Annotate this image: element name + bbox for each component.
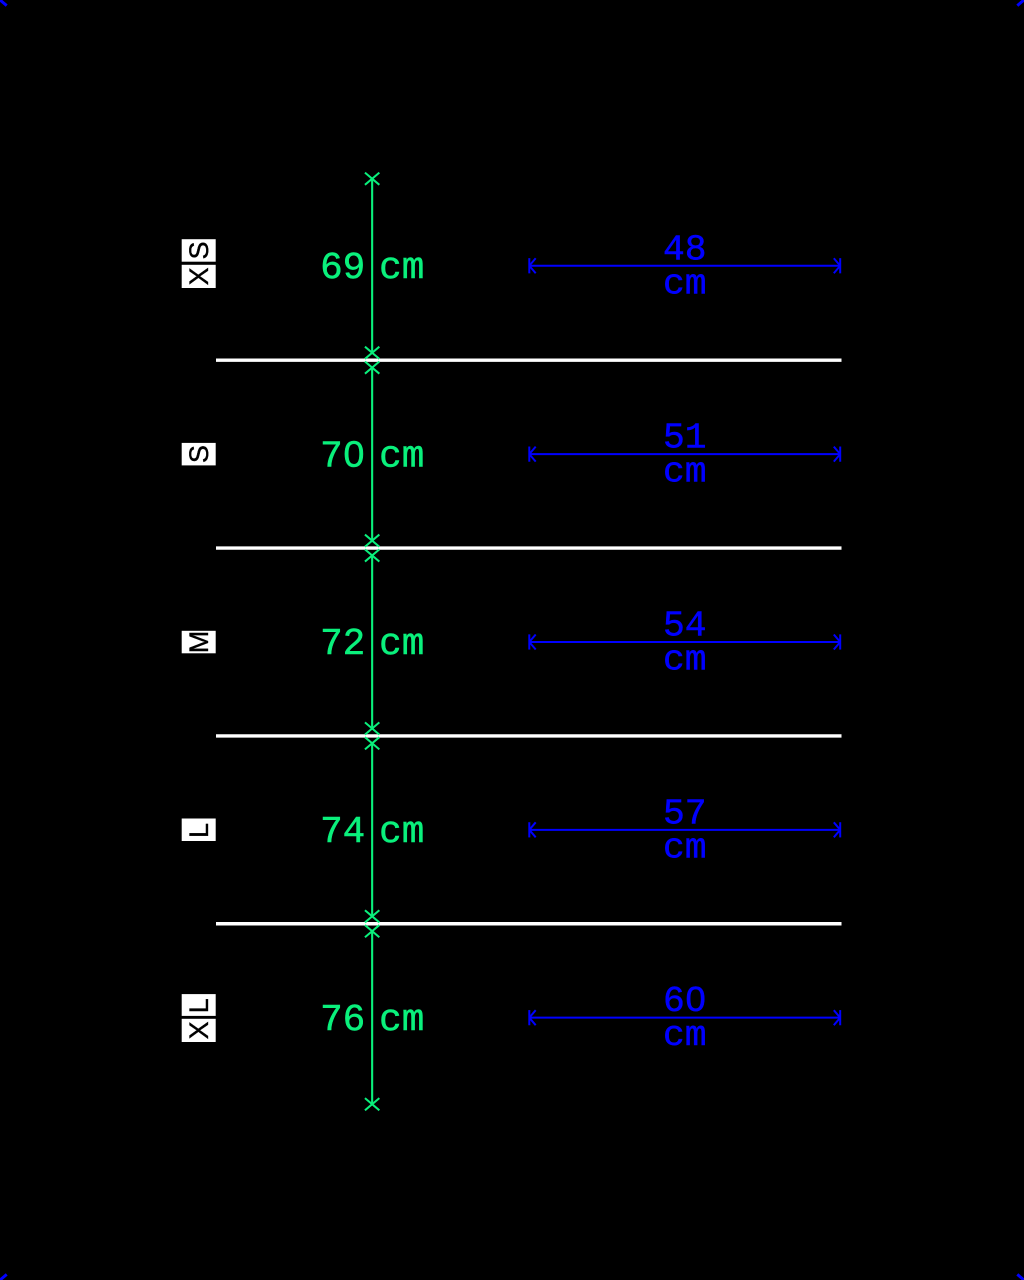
svg-text:70: 70 bbox=[320, 436, 365, 478]
svg-text:cm: cm bbox=[379, 812, 424, 854]
svg-text:X: X bbox=[184, 1021, 214, 1039]
svg-text:cm: cm bbox=[663, 1015, 707, 1056]
row L: blue right arrowhead bbox=[834, 822, 840, 837]
row M: blue value 54 cm bbox=[663, 606, 707, 681]
row L: blue left arrowhead bbox=[529, 822, 535, 837]
row L: green X tick bottom bbox=[365, 910, 379, 922]
row M: green X tick top bbox=[365, 549, 379, 561]
svg-text:cm: cm bbox=[379, 624, 424, 666]
svg-text:cm: cm bbox=[663, 640, 707, 681]
row S: green X tick bottom bbox=[365, 535, 379, 547]
row XS: green X tick bottom bbox=[365, 347, 379, 359]
corner mark bottom-right bbox=[1017, 1274, 1024, 1280]
row XL: green value 76 cm bbox=[320, 1000, 424, 1042]
row S: blue left arrowhead bbox=[529, 447, 535, 462]
corner mark top-left bbox=[0, 0, 7, 6]
row XL: blue left arrowhead bbox=[529, 1010, 535, 1025]
svg-text:S: S bbox=[184, 241, 214, 259]
svg-text:cm: cm bbox=[379, 436, 424, 478]
row XS: green length dimension line bbox=[371, 179, 373, 353]
corner mark top-right bbox=[1017, 0, 1024, 6]
row M: size label box M bbox=[182, 631, 216, 654]
row XL: blue width dimension line bbox=[529, 1017, 840, 1019]
row XS: size label box X bbox=[182, 265, 216, 288]
svg-text:cm: cm bbox=[663, 263, 707, 304]
row L: blue width dimension line bbox=[529, 829, 840, 831]
separator line 4 bbox=[216, 922, 842, 925]
row S: blue value 51 cm bbox=[663, 418, 707, 493]
row XL: size label box X bbox=[182, 1019, 216, 1042]
svg-text:cm: cm bbox=[379, 248, 424, 290]
svg-text:L: L bbox=[184, 998, 214, 1013]
row S: blue right arrowhead bbox=[834, 447, 840, 462]
row M: blue right arrowhead bbox=[834, 634, 840, 649]
row L: green X tick top bbox=[365, 737, 379, 749]
row M: green value 72 cm bbox=[320, 624, 424, 666]
row S: size label box S bbox=[182, 443, 216, 466]
row M: blue width dimension line bbox=[529, 641, 840, 643]
svg-text:M: M bbox=[184, 631, 214, 654]
row S: blue width dimension line bbox=[529, 453, 840, 455]
svg-text:S: S bbox=[184, 445, 214, 463]
row XS: blue right arrowhead bbox=[834, 258, 840, 273]
row S: green X tick top bbox=[365, 362, 379, 374]
row XL: green length dimension line bbox=[371, 931, 373, 1104]
row M: green X tick bottom bbox=[365, 722, 379, 734]
svg-text:cm: cm bbox=[663, 452, 707, 493]
row XS: blue value 48 cm bbox=[663, 229, 707, 304]
row XL: size label box L bbox=[182, 994, 216, 1016]
svg-text:cm: cm bbox=[663, 827, 707, 868]
svg-text:L: L bbox=[184, 823, 214, 838]
row XS: blue left arrowhead bbox=[529, 258, 535, 273]
separator line 2 bbox=[216, 546, 842, 549]
corner mark bottom-left bbox=[0, 1274, 7, 1280]
row XL: blue value 60 cm bbox=[663, 981, 707, 1056]
row XS: green X tick top bbox=[365, 173, 379, 185]
row M: green length dimension line bbox=[371, 555, 373, 728]
svg-text:69: 69 bbox=[320, 248, 365, 290]
row L: size label box L bbox=[182, 819, 216, 842]
row S: green value 70 cm bbox=[320, 436, 424, 478]
row L: green value 74 cm bbox=[320, 812, 424, 854]
row XS: size label box S bbox=[182, 239, 216, 262]
svg-text:76: 76 bbox=[320, 1000, 365, 1042]
row XS: blue width dimension line bbox=[529, 265, 840, 267]
svg-text:72: 72 bbox=[320, 624, 365, 666]
svg-text:74: 74 bbox=[320, 812, 365, 854]
row XL: green X tick top bbox=[365, 925, 379, 937]
svg-text:cm: cm bbox=[379, 1000, 424, 1042]
row L: blue value 57 cm bbox=[663, 793, 707, 868]
row M: blue left arrowhead bbox=[529, 634, 535, 649]
row XL: green X tick bottom bbox=[365, 1098, 379, 1110]
svg-text:X: X bbox=[184, 267, 214, 285]
row S: green length dimension line bbox=[371, 368, 373, 541]
row XS: green value 69 cm bbox=[320, 248, 424, 290]
separator line 3 bbox=[216, 734, 842, 737]
row XL: blue right arrowhead bbox=[834, 1010, 840, 1025]
row L: green length dimension line bbox=[371, 743, 373, 916]
separator line 1 bbox=[216, 359, 842, 362]
